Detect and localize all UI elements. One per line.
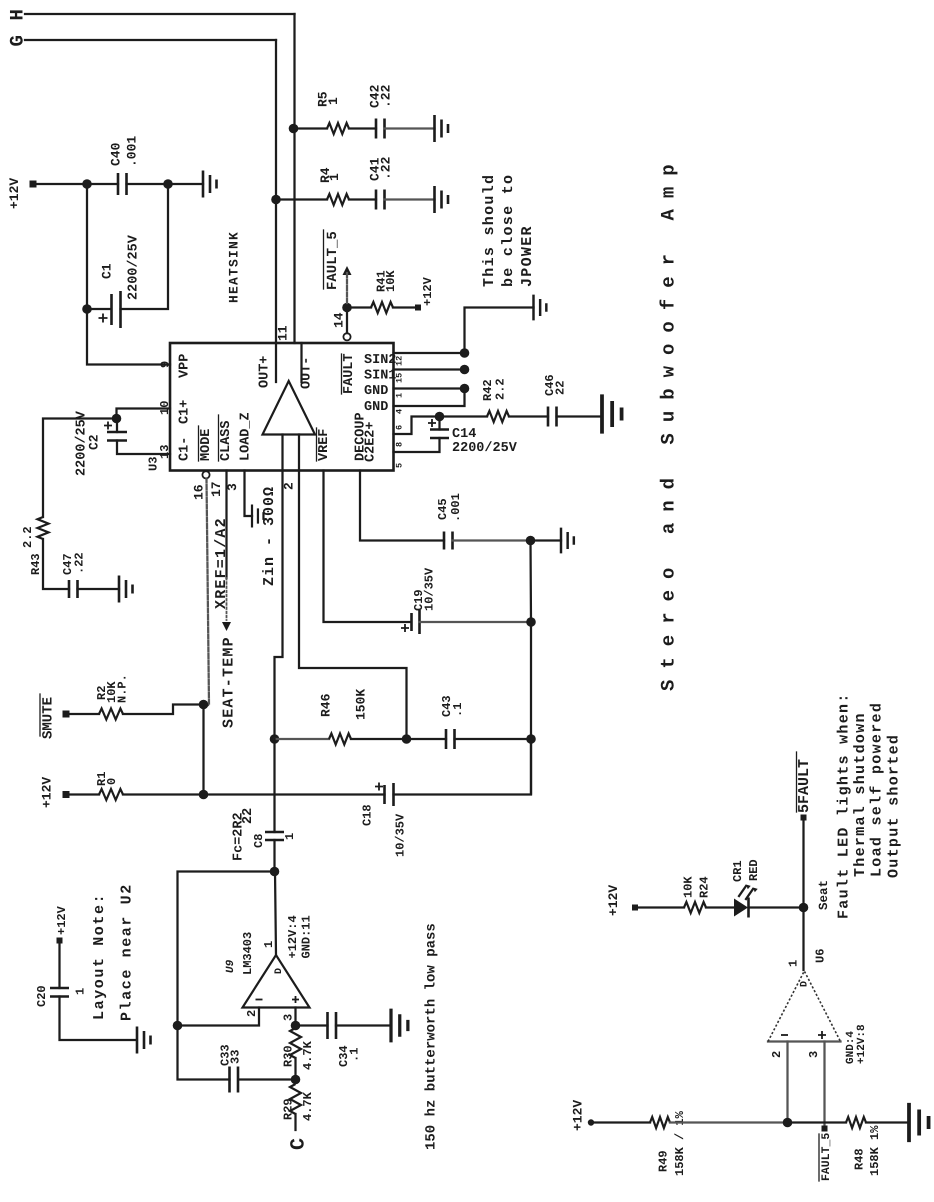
- pin 10 wire to C2 node: [117, 409, 171, 419]
- svg-text:13: 13: [158, 445, 172, 459]
- wire R46 lead: [275, 738, 330, 740]
- resistor R1: [99, 789, 123, 800]
- U9 plus input: [292, 996, 299, 1003]
- pin 14 open circle: [343, 333, 350, 340]
- svg-text:Load self powered: Load self powered: [869, 702, 886, 877]
- svg-text:10K: 10K: [682, 876, 696, 898]
- wire +12V to C40 node: [36, 183, 87, 185]
- wire C14 bottom to pin 8: [394, 438, 440, 452]
- ground at R48: [909, 1103, 929, 1142]
- junction summing node: [291, 1075, 301, 1085]
- svg-text:RED: RED: [747, 859, 761, 881]
- svg-text:.22: .22: [378, 84, 393, 108]
- wire C1 right side up to ground node: [121, 184, 169, 309]
- junction node on H line (R5 row): [289, 124, 299, 134]
- svg-text:12: 12: [394, 356, 404, 366]
- net arrow terminal FAULT_5: [343, 266, 352, 275]
- wire C18 to ground column corner: [394, 739, 532, 795]
- terminal +12V at C20: [57, 938, 63, 944]
- wire inverting feed to R46 right node: [299, 471, 407, 740]
- wire to C40: [87, 183, 118, 185]
- svg-text:.1: .1: [348, 1048, 362, 1062]
- svg-text:MODE: MODE: [199, 429, 214, 461]
- svg-text:16: 16: [191, 484, 206, 500]
- svg-text:+12V: +12V: [606, 885, 621, 916]
- svg-text:Place near U2: Place near U2: [119, 883, 136, 1021]
- wire R41 to +12V: [393, 306, 415, 308]
- svg-text:4.7K: 4.7K: [301, 1091, 315, 1121]
- wire inverting input: [178, 1008, 260, 1026]
- svg-text:8: 8: [394, 442, 404, 447]
- svg-text:.1: .1: [451, 703, 465, 717]
- svg-text:GND: GND: [364, 400, 388, 415]
- junction C45-gnd: [526, 536, 536, 546]
- capacitor C45: [444, 532, 453, 550]
- junction comparator threshold node: [783, 1118, 793, 1128]
- wire R48 to ground: [866, 1121, 908, 1123]
- junction C43-column: [526, 734, 536, 744]
- resistor R30 vertical: [290, 1028, 301, 1058]
- right edge pin stub GND 2: [394, 389, 465, 407]
- wire C8 top from R46 node: [273, 739, 275, 832]
- svg-text:R29: R29: [282, 1098, 296, 1120]
- ground column wire: [529, 541, 532, 794]
- svg-text:HEATSINK: HEATSINK: [226, 231, 241, 303]
- wire R29 lead: [294, 1114, 296, 1130]
- svg-text:Thermal shutdown: Thermal shutdown: [852, 712, 869, 877]
- terminal +12V at R41: [415, 305, 421, 311]
- svg-text:SMUTE: SMUTE: [40, 697, 56, 739]
- resistor R42: [487, 411, 509, 422]
- svg-text:22: 22: [241, 808, 256, 824]
- svg-text:C1-: C1-: [178, 437, 193, 461]
- svg-text:11: 11: [275, 325, 290, 341]
- ground at LOAD_Z: [252, 505, 263, 528]
- ground at C47: [119, 576, 133, 603]
- svg-text:+12V: +12V: [39, 777, 54, 808]
- svg-text:Stereo and Subwoofer Amp: Stereo and Subwoofer Amp: [658, 153, 680, 691]
- wire: net G horizontal run: [25, 39, 276, 41]
- U6 minus input: [781, 1034, 788, 1036]
- wire C40 right: [127, 183, 169, 185]
- svg-text:R49: R49: [657, 1150, 671, 1172]
- capacitor C34: [328, 1012, 337, 1039]
- U9 pin 3 wire: [294, 1008, 296, 1026]
- svg-text:+12V: +12V: [7, 178, 22, 209]
- svg-text:C20: C20: [35, 985, 49, 1007]
- pin 3 LOAD_Z wire to ground: [245, 471, 253, 517]
- wire R43 feed: [43, 419, 117, 518]
- wire pin 17 stub down: [225, 471, 227, 579]
- wire C19 to ground column: [420, 621, 532, 623]
- svg-text:5FAULT: 5FAULT: [796, 759, 813, 813]
- svg-text:6: 6: [394, 425, 404, 430]
- right edge pin stub GND: [394, 387, 465, 389]
- wire SIN bus up and to JPOWER ground: [465, 308, 534, 354]
- junction at C2 top: [112, 414, 122, 424]
- wire R43 to C47: [43, 539, 69, 589]
- junction node on G line (R4 row): [271, 195, 281, 205]
- svg-text:1: 1: [327, 173, 342, 181]
- svg-text:+12V: +12V: [570, 1100, 585, 1131]
- wire R5 to C42: [349, 127, 376, 129]
- svg-text:C2E2+: C2E2+: [364, 421, 379, 462]
- svg-text:17: 17: [209, 481, 224, 497]
- wire C8 bottom to opamp output node: [273, 840, 275, 872]
- IC internal line under triangle pin 2: [281, 435, 283, 471]
- svg-text:2.2: 2.2: [21, 526, 35, 548]
- svg-text:C1: C1: [99, 263, 114, 279]
- svg-text:C45: C45: [436, 498, 450, 520]
- junction U9 inverting node: [173, 1021, 183, 1031]
- wire R49 to node: [670, 1121, 788, 1123]
- IC internal OUT- line: [300, 343, 302, 382]
- right edge pin stub SIN2: [394, 352, 465, 354]
- svg-text:.001: .001: [124, 136, 139, 167]
- wire pin14 to FAULT node: [346, 308, 348, 334]
- wire: net G vertical drop to OUT+ pin 11: [275, 40, 277, 343]
- junction at C40 right: [163, 179, 173, 189]
- terminal +12V at R24: [632, 905, 638, 911]
- junction at C1: [82, 304, 92, 314]
- svg-text:2: 2: [770, 1051, 784, 1058]
- svg-text:C1+: C1+: [178, 400, 193, 424]
- wire C41 to ground: [385, 198, 435, 200]
- wire +12V rail down: [86, 184, 88, 309]
- wire to C1: [87, 308, 111, 310]
- wire R1 to node: [123, 793, 204, 795]
- junction MODE node: [199, 700, 209, 710]
- wire SMUTE to R2: [69, 713, 99, 715]
- resistor R5: [327, 123, 349, 134]
- svg-text:LM3403: LM3403: [241, 932, 255, 975]
- junction LED node: [799, 903, 809, 913]
- wire node to C18: [204, 793, 385, 795]
- svg-text:H: H: [7, 9, 29, 20]
- pin stub DECOUP to C14 node: [394, 417, 440, 435]
- wire node to U6 output: [802, 908, 804, 971]
- svg-text:2200/25V: 2200/25V: [127, 234, 142, 300]
- capacitor C8: [265, 832, 284, 840]
- wire pin3 to C34: [296, 1024, 328, 1026]
- wire: net H vertical drop to OUT- pin: [293, 14, 295, 343]
- junction R46 left: [270, 734, 280, 744]
- capacitor C1 polarized 2200/25V: [112, 291, 121, 328]
- capacitor C43: [446, 729, 455, 749]
- resistor R46: [329, 734, 351, 745]
- capacitor C47: [69, 580, 78, 598]
- ground at C46: [602, 394, 622, 433]
- wire +12V rail to pin 9: [87, 309, 170, 365]
- svg-text:R48: R48: [853, 1148, 867, 1170]
- wire MODE line down (SEAT-TEMP net): [204, 479, 210, 706]
- svg-text:LOAD_Z: LOAD_Z: [239, 412, 254, 461]
- ground at C41: [435, 186, 449, 213]
- svg-text:3: 3: [282, 1014, 296, 1021]
- svg-text:U6: U6: [814, 949, 828, 963]
- svg-text:SIN2: SIN2: [364, 353, 396, 368]
- wire +12V to R49: [594, 1121, 650, 1123]
- svg-text:U9: U9: [225, 959, 237, 973]
- svg-text:This should: This should: [481, 174, 498, 287]
- svg-text:1: 1: [74, 988, 88, 995]
- wire C47 to ground: [78, 588, 120, 590]
- wire to ground: [168, 183, 203, 185]
- svg-text:GND:11: GND:11: [300, 915, 314, 958]
- op-amp U6 triangle: [768, 1040, 841, 1042]
- wire to C33: [239, 1078, 296, 1080]
- terminal +12V (top left): [30, 181, 37, 188]
- wire +12V to R1: [69, 793, 99, 795]
- svg-text:.001: .001: [449, 493, 463, 522]
- svg-text:4: 4: [394, 409, 404, 414]
- IC internal OUT+ line: [275, 343, 277, 382]
- svg-text:R43: R43: [29, 553, 43, 575]
- svg-text:OUT-: OUT-: [300, 357, 315, 389]
- wire FAULT to R41: [352, 306, 372, 308]
- capacitor C19 10/35V polarized: [412, 610, 420, 634]
- svg-text:VPP: VPP: [178, 354, 193, 378]
- wire R4 to C41: [349, 198, 376, 200]
- svg-text:2.2: 2.2: [494, 378, 508, 400]
- svg-text:D: D: [274, 968, 285, 974]
- svg-text:158K 1%: 158K 1%: [868, 1125, 882, 1176]
- terminal +12V at R1: [63, 791, 70, 798]
- wire R5 lead: [294, 127, 328, 129]
- svg-text:Zin - 300Ω: Zin - 300Ω: [261, 486, 278, 586]
- svg-text:C8: C8: [252, 834, 266, 848]
- svg-text:CLASS: CLASS: [219, 420, 234, 461]
- svg-text:SIN1: SIN1: [364, 369, 396, 384]
- svg-text:5: 5: [394, 463, 404, 468]
- svg-text:3: 3: [225, 483, 240, 491]
- ground at C45: [531, 539, 562, 541]
- svg-text:150 hz butterworth low pass: 150 hz butterworth low pass: [423, 923, 439, 1150]
- svg-text:N.P.: N.P.: [116, 674, 130, 703]
- wire +12V to R24: [638, 906, 684, 908]
- capacitor C33: [230, 1067, 239, 1093]
- svg-text:OUT+: OUT+: [258, 356, 273, 388]
- svg-text:2200/25V: 2200/25V: [75, 410, 90, 476]
- svg-text:+12V:4: +12V:4: [286, 915, 300, 958]
- svg-text:10K: 10K: [384, 270, 398, 292]
- svg-text:1: 1: [326, 97, 341, 105]
- junction pin3 node: [291, 1021, 301, 1031]
- svg-text:15: 15: [394, 373, 404, 383]
- junction R1 node: [199, 790, 209, 800]
- svg-text:Fault LED lights when:: Fault LED lights when:: [836, 692, 853, 919]
- IC internal amp triangle: [263, 381, 316, 435]
- wire C20 to ground: [60, 997, 137, 1041]
- capacitor C40: [118, 173, 127, 195]
- svg-text:FAULT_5: FAULT_5: [325, 231, 341, 290]
- wire node to R48: [788, 1121, 847, 1123]
- svg-text:+12V: +12V: [421, 276, 435, 306]
- svg-text:3: 3: [807, 1051, 821, 1058]
- wire 5FAULT down to LED node: [802, 820, 804, 908]
- U9 output wire: [275, 872, 276, 956]
- pin 2 wire down to R46 node: [275, 471, 283, 740]
- wire R2 to MODE node: [123, 705, 204, 715]
- svg-text:be close to: be close to: [500, 174, 517, 287]
- wire +12V to C20: [58, 943, 60, 988]
- svg-text:10/35V: 10/35V: [394, 813, 408, 857]
- LED CR1: [734, 899, 748, 917]
- svg-text:1: 1: [262, 941, 276, 948]
- svg-text:C18: C18: [361, 804, 375, 826]
- right edge pin stub SIN1: [394, 368, 465, 370]
- svg-text:4.7K: 4.7K: [301, 1040, 315, 1070]
- svg-text:R24: R24: [698, 876, 712, 898]
- resistor R4: [327, 194, 349, 205]
- resistor R41: [371, 302, 393, 313]
- ground at C40: [203, 171, 217, 198]
- junction R46 right: [402, 734, 412, 744]
- wire R46 to C43 node: [351, 738, 407, 740]
- svg-text:D: D: [799, 981, 810, 987]
- junction opamp output node: [270, 867, 280, 877]
- svg-text:2: 2: [281, 482, 296, 490]
- resistor R29 vertical: [290, 1084, 301, 1114]
- resistor R24: [684, 902, 706, 913]
- U6 pin 3 wire: [823, 1042, 825, 1126]
- wire to C43: [407, 738, 447, 740]
- ground at C42: [435, 115, 449, 142]
- wire: net H horizontal run: [25, 13, 295, 15]
- svg-text:.22: .22: [73, 552, 87, 574]
- capacitor C46: [548, 407, 557, 427]
- svg-text:GND: GND: [364, 384, 388, 399]
- resistor R2: [99, 709, 123, 720]
- svg-text:XREF=1/A2: XREF=1/A2: [213, 517, 230, 609]
- IC U3 body: [170, 343, 394, 471]
- wire C42 to ground: [385, 127, 435, 129]
- svg-text:Layout Note:: Layout Note:: [91, 893, 108, 1020]
- capacitor C14 2200/25V polarized: [438, 417, 440, 430]
- svg-text:0: 0: [105, 778, 119, 785]
- svg-text:Seat: Seat: [817, 880, 831, 910]
- svg-text:2200/25V: 2200/25V: [452, 441, 518, 456]
- wire C43 to ground column: [455, 738, 532, 740]
- svg-text:14: 14: [331, 312, 346, 328]
- svg-text:FAULT: FAULT: [342, 353, 357, 394]
- capacitor C20: [50, 988, 69, 997]
- svg-text:+12V:8: +12V:8: [856, 1024, 868, 1064]
- svg-text:C: C: [287, 1138, 310, 1150]
- wire R42 to C46: [509, 415, 548, 417]
- op-amp U9 triangle: [243, 955, 310, 1008]
- U6 plus input: [818, 1031, 826, 1039]
- wire R4 lead: [276, 198, 327, 200]
- resistor R43 vertical: [38, 517, 49, 539]
- svg-text:CR1: CR1: [731, 860, 745, 882]
- terminal FAULT_5 lower: [822, 1126, 828, 1132]
- wire R24 to LED: [706, 906, 734, 908]
- capacitor C18 10/35V polarized: [385, 783, 394, 806]
- svg-text:150K: 150K: [353, 689, 368, 720]
- U9 minus input: [256, 999, 263, 1001]
- pin VREF wire to C19: [324, 471, 411, 623]
- IC internal line under triangle: [298, 435, 300, 471]
- svg-text:158K / 1%: 158K / 1%: [673, 1110, 687, 1176]
- svg-text:JPOWER: JPOWER: [519, 225, 536, 287]
- svg-text:.22: .22: [378, 156, 393, 180]
- U6 pin 2 wire: [786, 1042, 788, 1123]
- wire MODE node down to R1 node: [202, 705, 204, 795]
- wire LED to node: [749, 906, 804, 908]
- terminal +12V at R49: [588, 1119, 594, 1125]
- junction FAULT node: [342, 303, 352, 313]
- ground at C34: [391, 1009, 408, 1043]
- wire C34 to ground: [336, 1024, 390, 1026]
- svg-text:R30: R30: [282, 1045, 296, 1067]
- svg-text:Output shorted: Output shorted: [886, 734, 903, 878]
- junction at C40 left: [82, 179, 92, 189]
- terminal 5FAULT: [801, 815, 807, 821]
- svg-text:22: 22: [554, 381, 568, 395]
- dotted xref leader: [226, 578, 228, 620]
- svg-text:33: 33: [229, 1050, 243, 1064]
- wire C46 to ground: [557, 415, 603, 417]
- capacitor C2 2200/25V polarized: [116, 419, 118, 433]
- LED arrows: [739, 886, 753, 899]
- terminal SMUTE: [63, 711, 70, 718]
- resistor R49: [650, 1117, 670, 1128]
- pin 16 open circle MODE: [202, 471, 209, 478]
- svg-text:1: 1: [787, 960, 801, 967]
- resistor R48: [846, 1117, 866, 1128]
- svg-text:SEAT-TEMP: SEAT-TEMP: [221, 636, 238, 728]
- svg-text:VREF: VREF: [317, 429, 332, 461]
- capacitor C41: [376, 190, 385, 210]
- svg-text:R46: R46: [318, 693, 333, 717]
- junction at C14 top: [435, 412, 445, 422]
- wire C14 node to R42: [440, 415, 488, 417]
- junction C19-gnd: [526, 617, 536, 627]
- svg-text:FAULT_5: FAULT_5: [820, 1133, 833, 1181]
- ground near JPOWER: [534, 295, 547, 321]
- svg-text:2: 2: [245, 1010, 259, 1017]
- svg-text:1: 1: [394, 393, 404, 398]
- svg-text:+12V: +12V: [55, 905, 69, 935]
- capacitor C42: [376, 119, 385, 139]
- wire R30 to summing node: [294, 1058, 296, 1080]
- ground at C20: [137, 1027, 151, 1054]
- op-amp U9 feedback loop wire: [178, 872, 275, 1080]
- svg-text:1: 1: [283, 833, 297, 840]
- net arrow on SEAT-TEMP: [222, 622, 231, 631]
- wire C45 to ground: [453, 539, 531, 541]
- svg-text:C40: C40: [108, 142, 123, 166]
- pin DECOUP wire to C45: [360, 471, 444, 541]
- svg-text:C14: C14: [452, 427, 476, 442]
- svg-text:10/35V: 10/35V: [423, 567, 437, 611]
